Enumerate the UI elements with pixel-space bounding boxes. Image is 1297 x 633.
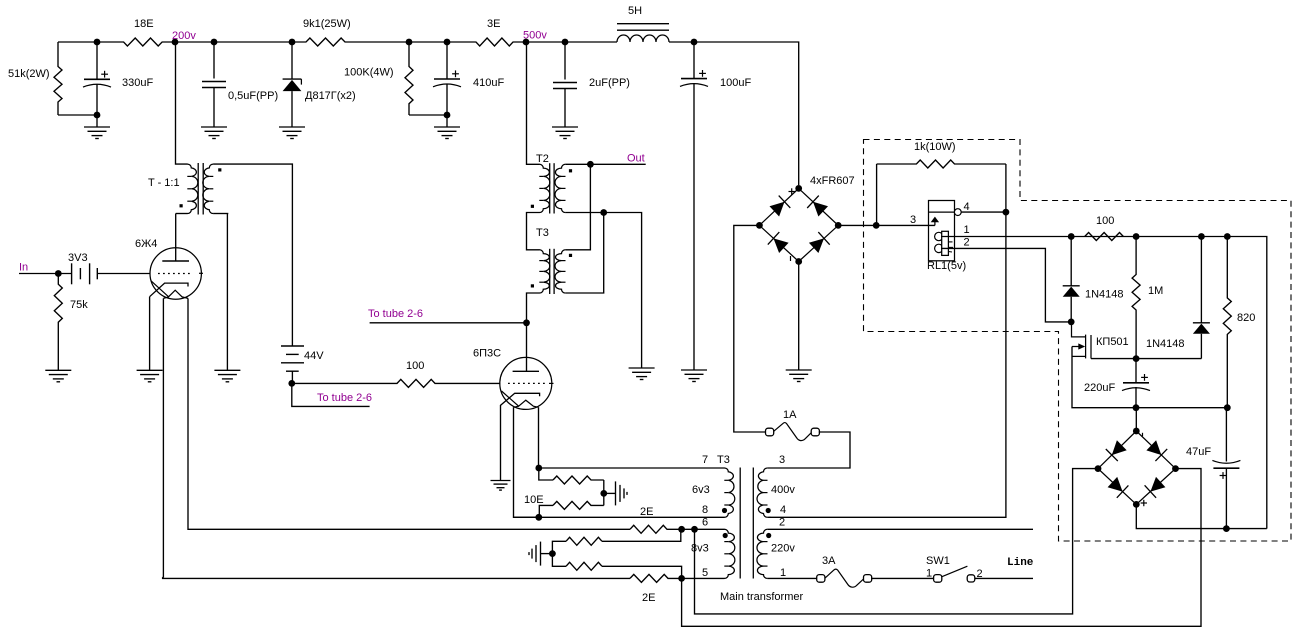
transformer T3 left winding — [540, 250, 550, 293]
ground under 100uF — [681, 370, 707, 382]
ground output — [629, 368, 655, 380]
ground under 2uF — [552, 127, 578, 139]
resistor 100 (gate rail) — [1085, 233, 1124, 241]
relay contact arrow — [931, 217, 939, 223]
wire diode2 top lead — [1200, 237, 1202, 323]
svg-text:T2: T2 — [536, 153, 549, 165]
resistor 3E — [447, 38, 526, 46]
wire 10E center to chassis — [604, 492, 616, 494]
wire 5H to 100uF node — [669, 41, 694, 43]
wire 2uF to 5H — [565, 41, 617, 43]
wire pin6 rail right — [682, 528, 725, 530]
tube 6Zh4 grid stub — [199, 272, 203, 274]
svg-text:Out: Out — [627, 153, 645, 165]
wire pin2t rail — [767, 528, 1033, 530]
wire T2 right bottom — [565, 213, 641, 369]
svg-text:1M: 1M — [1148, 285, 1163, 297]
svg-text:2uF(PP): 2uF(PP) — [589, 77, 630, 89]
wire 10E lower branch — [539, 505, 553, 517]
junction input node — [55, 270, 62, 277]
svg-text:КП501: КП501 — [1096, 336, 1129, 348]
wire fuse 1A to pin3 — [767, 432, 850, 468]
wire 6P3S cathode to ground — [500, 405, 502, 481]
svg-text:6Ж4: 6Ж4 — [135, 238, 157, 250]
junction heater pin7 node — [535, 465, 542, 472]
phase dot 220v — [766, 533, 771, 538]
plus sign bridge1 — [789, 188, 795, 194]
wire T2 right bottom down to T3 — [565, 213, 603, 294]
plus sign 410uF — [452, 70, 459, 77]
junction bridge1 bottom — [795, 258, 802, 265]
wire 6Zh4 plate lead — [175, 214, 177, 262]
ground T-1:1 secondary — [214, 370, 240, 382]
wire pin4 lead — [767, 516, 770, 518]
wire heater rail lower — [163, 577, 630, 578]
wire zener bottom lead — [291, 91, 293, 127]
main transformer 400v winding — [757, 468, 767, 517]
wire 47uF bottom lead — [1225, 468, 1227, 528]
zener diode D817G(x2) — [283, 79, 302, 91]
svg-text:820: 820 — [1237, 312, 1255, 324]
wire 220uF top lead — [1135, 359, 1137, 383]
bridge rectifier low voltage — [1098, 431, 1176, 504]
fuse 1A terminal left — [766, 428, 774, 436]
wire diode2 bottom lead — [1200, 334, 1202, 359]
tube 6Zh4 heater — [163, 290, 188, 298]
svg-text:SW1: SW1 — [926, 555, 950, 567]
switch SW1 terminal 2 — [967, 575, 975, 582]
plus sign 220uF — [1141, 374, 1148, 381]
svg-text:1k(10W): 1k(10W) — [914, 141, 956, 153]
relay RL1 outline — [929, 201, 955, 261]
svg-text:1N4148: 1N4148 — [1085, 289, 1124, 301]
tube 6P3S cathode — [500, 393, 539, 405]
svg-text:3: 3 — [910, 214, 916, 226]
resistor 1M — [1132, 237, 1140, 359]
svg-text:5: 5 — [702, 567, 708, 579]
switch SW1 arm — [942, 566, 968, 577]
wire 0.5uF top lead — [213, 42, 215, 79]
junction 410uF bottom — [444, 112, 451, 119]
svg-text:T3: T3 — [717, 454, 730, 466]
wire 410uF bottom lead — [446, 84, 448, 128]
junction 2E lower — [678, 575, 685, 582]
phase dot T2 right — [569, 169, 572, 172]
diode 1N4148 second — [1193, 323, 1210, 334]
wire Out down to T3 right top — [565, 164, 590, 250]
wire 47uF top lead — [1225, 408, 1227, 462]
wire 330uF bottom lead — [96, 84, 98, 127]
tube 6Zh4 grid — [158, 273, 192, 275]
wire bridge2 left to heater rail — [695, 469, 1099, 614]
svg-text:47uF: 47uF — [1186, 446, 1211, 458]
tube 6P3S grid stub — [549, 382, 554, 384]
wire Line stub — [975, 577, 1034, 579]
junction 100uF top — [691, 39, 698, 46]
phase dot 6v3 — [722, 508, 727, 513]
wire 100uF bottom lead — [693, 83, 695, 370]
wire 10E vertical join — [603, 480, 605, 505]
resistor 2E upper — [630, 525, 682, 533]
resistor 2E lower — [630, 574, 682, 582]
svg-text:9k1(25W): 9k1(25W) — [303, 18, 351, 30]
wire 220uF bottom lead — [1135, 387, 1137, 408]
svg-text:2: 2 — [779, 517, 785, 529]
resistor 51k(2W) — [54, 42, 62, 115]
wire drain rail — [1091, 358, 1201, 360]
svg-text:0,5uF(PP): 0,5uF(PP) — [228, 90, 278, 102]
node 200v junction — [172, 39, 179, 46]
svg-text:2E: 2E — [642, 592, 655, 604]
wire 1k left vertical — [876, 164, 878, 225]
svg-text:44V: 44V — [304, 350, 324, 362]
svg-text:8: 8 — [702, 504, 708, 516]
wire 6Zh4 heater left down — [162, 298, 165, 577]
wire T-1:1 left bottom to plate — [176, 213, 188, 215]
main transformer core — [740, 468, 753, 579]
svg-text:500v: 500v — [523, 30, 547, 42]
fuse 3A terminal right — [864, 575, 872, 583]
junction bottom rail 220uF — [1133, 404, 1140, 411]
resistor 9k1(25W) — [292, 38, 409, 46]
junction rail diode2 — [1198, 233, 1205, 240]
wire chassis left connect — [541, 553, 553, 555]
svg-text:100: 100 — [1096, 215, 1114, 227]
junction bridge2 left — [1095, 465, 1102, 472]
main transformer 8v3 winding — [725, 529, 735, 578]
resistor 75k — [54, 274, 62, 371]
junction plate node — [523, 319, 530, 326]
capacitor 100uF — [680, 79, 708, 87]
resistor 100K(4W) — [405, 42, 413, 115]
ground 6P3S cathode — [491, 481, 511, 491]
wire 100uF top lead — [693, 42, 695, 79]
wire 8v3 lower to pin5 — [602, 566, 682, 578]
wire 200v down to T-1:1 primary — [176, 42, 188, 164]
wire zener top lead — [291, 42, 293, 79]
svg-text:2E: 2E — [640, 506, 653, 518]
tube 6Zh4 cathode cross — [151, 281, 169, 297]
svg-text:1: 1 — [780, 567, 786, 579]
tube 6P3S cathode cross — [502, 391, 520, 407]
relay pin 4 circle — [954, 209, 961, 216]
junction rail 820 — [1224, 233, 1231, 240]
svg-text:200v: 200v — [172, 30, 196, 42]
svg-text:330uF: 330uF — [122, 77, 153, 89]
wire 8v3 upper to pin6 — [602, 529, 681, 541]
svg-text:To tube 2-6: To tube 2-6 — [368, 308, 423, 320]
capacitor 47uF — [1212, 460, 1240, 468]
svg-text:T - 1:1: T - 1:1 — [148, 177, 180, 189]
plus sign 100uF — [699, 70, 706, 77]
ground under 75k — [45, 370, 71, 382]
ground under 0.5uF — [201, 127, 227, 139]
ground under zener — [279, 127, 305, 139]
wire to tube upper — [370, 322, 527, 324]
wire relay pin4 to 1k — [961, 211, 1006, 213]
tick bridge2 top — [1142, 433, 1144, 437]
wire 3A to SW1 — [871, 577, 934, 579]
capacitor 220uF — [1122, 383, 1150, 391]
wire diode1 bottom lead — [1070, 297, 1072, 322]
svg-text:220v: 220v — [771, 543, 795, 555]
wire battery to grid 6Zh4 — [97, 273, 150, 275]
junction 47uF bottom — [1223, 525, 1230, 532]
transformer T-1:1 core — [198, 163, 203, 215]
switch SW1 terminal 1 — [934, 575, 942, 583]
resistor 820 — [1223, 237, 1231, 408]
svg-text:Main transformer: Main transformer — [720, 591, 803, 603]
wire 330uF top lead — [96, 42, 98, 79]
junction bottom rail 820 — [1224, 404, 1231, 411]
wire bottom rail to 820 — [1136, 407, 1227, 409]
tube 6P3S heater — [514, 400, 539, 407]
phase dot 400v — [766, 508, 771, 513]
wire T-1:1 right bottom to ground — [213, 213, 228, 215]
wire 1k right vertical — [1005, 164, 1007, 212]
wire 0.5uF to zener — [214, 41, 292, 43]
svg-text:To tube 2-6: To tube 2-6 — [317, 392, 372, 404]
wire pin1t to fuse 3A — [767, 577, 817, 579]
tube 6P3S plate — [513, 370, 539, 372]
wire diode1 top lead — [1070, 237, 1072, 286]
junction Out node — [587, 161, 594, 168]
tube 6Zh4 envelope — [150, 248, 201, 299]
wire bridge2 bottom rail — [1136, 504, 1267, 528]
junction 2E upper b — [691, 526, 698, 533]
dashed enclosure — [864, 140, 1292, 542]
resistor 1k(10W) — [877, 160, 1006, 168]
transformer T3 core — [550, 249, 554, 294]
svg-text:400v: 400v — [771, 484, 795, 496]
node 500v junction — [523, 39, 530, 46]
ground under 410uF — [434, 127, 460, 139]
wire bridge2 right to heater rail — [682, 469, 1201, 627]
capacitor 410uF — [433, 79, 461, 87]
phase dot T3 left — [531, 284, 534, 287]
svg-text:1N4148: 1N4148 — [1146, 338, 1185, 350]
junction heater pin8 node — [535, 514, 542, 521]
wire 100uF node to bridge — [694, 42, 799, 185]
wire relay pin1 rail — [941, 237, 1267, 529]
wire top rail segment 51k to 330uF — [58, 41, 97, 43]
wire bridge1 left to fuse 1A — [734, 225, 766, 432]
svg-text:T3: T3 — [536, 227, 549, 239]
svg-text:3A: 3A — [822, 555, 836, 567]
wire T3 left bottom to plate node — [527, 293, 540, 323]
junction 330uF bottom — [94, 112, 101, 119]
transformer T-1:1 right winding — [203, 164, 213, 213]
junction T2 right bottom — [600, 209, 607, 216]
wire 8v3 net upper — [552, 541, 566, 553]
transistor KP501 mosfet — [1072, 322, 1092, 359]
transformer T2 right winding — [555, 164, 565, 212]
svg-text:3: 3 — [779, 454, 785, 466]
wire 10E upper branch — [539, 468, 553, 480]
svg-text:3E: 3E — [487, 18, 500, 30]
plus sign bridge2 — [1141, 500, 1147, 506]
resistor 100 grid stopper — [292, 379, 500, 387]
svg-text:10E: 10E — [524, 494, 544, 506]
ground 6Zh4 cathode — [137, 370, 163, 382]
capacitor 330uF — [83, 79, 111, 87]
svg-text:5H: 5H — [628, 5, 642, 17]
wire 200v node to 0.5uF — [175, 41, 214, 43]
junction 0.5uF top — [211, 39, 218, 46]
junction bridge2 right — [1172, 465, 1179, 472]
wire 6Zh4 cathode to ground — [149, 297, 151, 371]
junction 2E upper a — [678, 526, 685, 533]
phase dot 8v3 — [723, 533, 728, 538]
svg-text:1: 1 — [926, 568, 932, 580]
junction bridge1 top — [795, 185, 802, 192]
phase dot T2 left — [531, 205, 534, 208]
battery 3V3 — [72, 263, 98, 284]
svg-text:6: 6 — [702, 517, 708, 529]
wire 51k bottom to cap junction — [58, 114, 97, 116]
main transformer 220v winding — [757, 529, 767, 578]
svg-text:410uF: 410uF — [473, 77, 504, 89]
junction source node 1M — [1133, 355, 1140, 362]
relay coil — [935, 231, 953, 255]
resistor 8v3 upper — [566, 537, 602, 545]
junction bridge2 top — [1133, 428, 1140, 435]
junction bridge1 left — [756, 222, 763, 229]
svg-text:1A: 1A — [783, 409, 797, 421]
wire 6P3S heater right down — [538, 407, 540, 468]
wire 6Zh4 heater right down — [188, 298, 630, 529]
junction 10E center — [600, 490, 607, 497]
wire 2uF bottom lead — [564, 89, 566, 128]
junction bridge1 right — [835, 222, 842, 229]
transformer T3 right winding — [555, 250, 565, 293]
phase dot T-1:1 left — [180, 204, 183, 207]
main transformer 6v3 winding — [725, 468, 735, 517]
svg-text:18E: 18E — [134, 18, 154, 30]
wire input — [19, 273, 72, 275]
svg-text:Д817Г(x2): Д817Г(x2) — [305, 90, 356, 102]
wire 6P3S plate lead — [526, 323, 528, 372]
junction 44V node — [288, 380, 295, 387]
inductor 5H — [617, 35, 669, 42]
resistor 8v3 lower — [566, 562, 602, 570]
transformer T2 core — [550, 163, 554, 213]
wire 100K node to 410uF node — [409, 41, 447, 43]
chassis ground right — [616, 481, 628, 505]
svg-text:4: 4 — [780, 504, 786, 516]
bridge rectifier 4xFR607 — [759, 188, 838, 261]
svg-text:8v3: 8v3 — [691, 543, 709, 555]
svg-text:Line: Line — [1007, 557, 1034, 569]
tube 6P3S grid — [508, 382, 545, 384]
junction gate node — [1068, 319, 1075, 326]
chassis ground left — [529, 542, 541, 566]
wire relay pin4 node down to transformer pin4 — [770, 212, 1006, 517]
junction bridge2 bottom — [1133, 501, 1140, 508]
wire 2uF top lead — [564, 42, 566, 80]
wire 500v down to T2 primary — [527, 42, 540, 164]
svg-text:RL1(5v): RL1(5v) — [927, 260, 966, 272]
minus tick bridge1 bottom — [790, 256, 792, 261]
phase dot T3 right — [569, 254, 572, 257]
tube 6P3S envelope — [500, 357, 552, 409]
wire T2 right top Out — [565, 163, 645, 165]
junction rail 1M — [1133, 233, 1140, 240]
wire 100K bottom to 410uF junction — [409, 114, 447, 116]
fuse 1A terminal right — [811, 428, 819, 436]
junction zener top — [289, 39, 296, 46]
transformer T2 left winding — [540, 164, 550, 212]
junction bridge1 right ext — [873, 222, 880, 229]
wire 8v3 net lower — [552, 554, 566, 567]
junction 2uF top — [562, 39, 569, 46]
wire 0.5uF bottom lead — [213, 88, 215, 128]
svg-text:100K(4W): 100K(4W) — [344, 67, 394, 79]
resistor 18E — [97, 38, 175, 46]
wire 6P3S heater left down — [514, 407, 540, 517]
svg-text:75k: 75k — [70, 299, 88, 311]
fuse 3A terminal left — [817, 575, 825, 583]
svg-text:4xFR607: 4xFR607 — [810, 175, 855, 187]
wire pin8 rail — [514, 516, 725, 518]
wire screen ground — [226, 214, 228, 371]
svg-text:6v3: 6v3 — [692, 484, 710, 496]
junction 410uF top — [444, 39, 451, 46]
tube 6Zh4 cathode — [150, 283, 188, 297]
junction 8v3 network — [549, 550, 556, 557]
plus sign 47uF — [1220, 472, 1227, 479]
svg-text:100: 100 — [406, 360, 424, 372]
svg-text:100uF: 100uF — [720, 77, 751, 89]
capacitor 2uF(PP) — [553, 83, 577, 89]
battery 44V — [281, 346, 304, 371]
wire pin5 rail right — [682, 577, 725, 579]
junction rail diode1 — [1068, 233, 1075, 240]
wire 410uF top lead — [446, 42, 448, 79]
wire pin7 rail — [539, 467, 725, 469]
junction 330uF top — [94, 39, 101, 46]
svg-text:In: In — [19, 262, 28, 274]
plus sign 330uF — [101, 71, 108, 78]
ground under bridge1 — [786, 370, 812, 382]
ground under 330uF — [84, 127, 110, 139]
wire T2 left bottom to T3 — [527, 213, 540, 250]
wire T-1:1 right top to 44V — [213, 164, 292, 346]
wire 500v node to 2uF — [526, 41, 565, 43]
phase dot T-1:1 right — [218, 168, 221, 171]
resistor 10E upper — [553, 476, 604, 484]
wire to tube stub — [292, 383, 370, 406]
resistor 10E lower — [553, 501, 604, 509]
svg-text:6П3С: 6П3С — [473, 348, 501, 360]
tube 6Zh4 plate — [162, 260, 189, 262]
svg-text:3V3: 3V3 — [68, 252, 88, 264]
svg-text:7: 7 — [702, 454, 708, 466]
diode 1N4148 first — [1063, 286, 1080, 297]
wire bridge2 top lead — [1135, 408, 1137, 431]
svg-text:51k(2W): 51k(2W) — [8, 68, 50, 80]
fuse 1A — [773, 423, 811, 441]
wire bridge1 bottom to ground — [798, 262, 800, 371]
fuse 3A — [825, 569, 864, 587]
svg-text:220uF: 220uF — [1084, 382, 1115, 394]
wire mosfet source down — [1072, 347, 1136, 408]
wire 44V bottom — [291, 371, 293, 383]
wire relay pin2 to gate — [941, 248, 1071, 322]
wire bridge1 right to relay — [838, 224, 935, 226]
svg-text:2: 2 — [964, 236, 970, 248]
capacitor 0,5uF(PP) — [202, 82, 226, 88]
